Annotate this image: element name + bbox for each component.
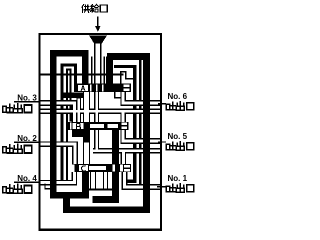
H-top step corner at piston1 right bbox=[121, 72, 135, 84]
label 吐出口 No.1 row bbox=[166, 184, 193, 192]
cross line H-top bbox=[39, 74, 124, 76]
connector piston3 down center E3 (outline) bbox=[103, 172, 108, 190]
channel H-mid core bbox=[38, 110, 160, 113]
channel No.2 core bbox=[38, 144, 75, 164]
svg-text:No. 6: No. 6 bbox=[168, 92, 188, 101]
label 供給口 (supply port) bbox=[82, 4, 107, 12]
discharge channel No.1 (outline) bbox=[125, 172, 161, 188]
thick staircase under piston2 left bbox=[75, 130, 86, 142]
thick top right bar bbox=[107, 53, 150, 60]
thick channel left loop bbox=[53, 53, 89, 195]
thick connector to piston1 top right bbox=[106, 56, 113, 83]
thick bottom bar C bbox=[63, 206, 147, 213]
bore outline left of supply gallery bbox=[91, 57, 93, 84]
thick connector piston2 right down and bottom bar B bbox=[93, 128, 116, 200]
channel No.1 core bbox=[125, 172, 161, 187]
svg-text:No. 5: No. 5 bbox=[168, 132, 188, 141]
leader tick No.1 bbox=[157, 186, 166, 188]
supply channel bore core bbox=[95, 43, 100, 84]
thick right vertical bbox=[143, 56, 150, 213]
small corner near No.4 channel bbox=[45, 184, 50, 189]
nested channel rectangle (thin, left) TC1 bbox=[67, 70, 71, 185]
connector E1 core bbox=[95, 92, 98, 122]
thick band under piston1 left bbox=[62, 93, 85, 99]
outer housing border bbox=[39, 34, 161, 230]
discharge channel No.2 (outline) bbox=[39, 144, 76, 164]
connector E2 core bbox=[95, 130, 98, 150]
connector piston2 to piston3 left D2 (outline) bbox=[83, 140, 90, 165]
progressive distributor valve schematic bbox=[0, 0, 200, 239]
supply arrow bbox=[97, 17, 99, 27]
connector H-mid2 to piston3 top (outline) bbox=[121, 151, 127, 165]
channel No.4 core bbox=[38, 172, 74, 183]
glyph 供 bbox=[82, 5, 90, 13]
cross channel H-mid2 (outline) bbox=[93, 148, 161, 153]
connector piston3 down D3 (outline) bbox=[90, 172, 96, 190]
piston assembly 2 bbox=[68, 122, 129, 130]
white bores of outlined channels bbox=[38, 43, 160, 189]
channel H-mid2 core bbox=[93, 150, 160, 153]
vertical channel line (thin, right) TC3 bbox=[139, 60, 141, 189]
connector F1 core bbox=[78, 99, 80, 122]
thick supply gallery network bbox=[53, 53, 150, 213]
connector H-mid to piston2 top (outline) bbox=[120, 111, 126, 122]
channel No.3 core bbox=[38, 103, 75, 122]
leader tick No.5 bbox=[158, 141, 166, 143]
bore outline right of supply gallery bbox=[103, 57, 105, 84]
piston assembly 3 bbox=[74, 164, 131, 172]
connector H-mid2 to piston3 core bbox=[122, 151, 125, 164]
connector band to piston2 box F1 (outline) bbox=[77, 96, 82, 123]
leader tick No.6 bbox=[158, 103, 166, 105]
thick connector bars A-C left bbox=[63, 194, 70, 210]
connector piston2 down center E2 (outline) bbox=[94, 130, 99, 150]
leader line No.4 bbox=[14, 181, 40, 183]
channel No.5 core bbox=[123, 130, 160, 141]
small step under piston1 right bbox=[115, 92, 122, 98]
nested channel rectangle (medium, right) MC2 bbox=[114, 67, 135, 182]
svg-text:No. 4: No. 4 bbox=[17, 174, 37, 183]
label 吐出口 No.5 row bbox=[166, 142, 193, 150]
line H-bottom bbox=[89, 188, 112, 190]
channel No.6 core bbox=[123, 92, 160, 103]
discharge channel No.5 (outline) bbox=[123, 130, 160, 142]
connector D1 core bbox=[84, 92, 89, 122]
leader line No.2 bbox=[14, 141, 40, 143]
discharge channel No.3 (outline) bbox=[39, 103, 75, 123]
svg-text:No. 3: No. 3 bbox=[17, 94, 37, 103]
cross channel H-mid (outline) bbox=[39, 109, 161, 114]
glyph 給 bbox=[91, 4, 99, 12]
label 吐出口 No.6 row bbox=[166, 102, 193, 110]
connector piston1 to piston2 left D1 (outline) bbox=[83, 92, 90, 123]
discharge channel No.6 (outline) bbox=[123, 92, 160, 104]
label 吐出口 No.2 row bbox=[3, 144, 32, 153]
supply channel bore (outline) bbox=[94, 43, 102, 84]
connector piston1 to piston2 center E1 (outline) bbox=[94, 92, 99, 123]
connector D3 core bbox=[91, 172, 95, 189]
connector D2 core bbox=[84, 143, 89, 164]
label 吐出口 No.3 row bbox=[3, 104, 32, 113]
connector E3 core bbox=[104, 172, 107, 189]
svg-text:No. 2: No. 2 bbox=[17, 134, 37, 143]
label 吐出口 No.4 row bbox=[3, 184, 32, 193]
glyph 口 bbox=[100, 5, 107, 12]
nested channel rectangle (medium, left) MC1 bbox=[62, 65, 76, 181]
leader line No.3 bbox=[14, 101, 40, 103]
svg-text:No. 1: No. 1 bbox=[168, 174, 188, 183]
discharge channel No.4 (outline) bbox=[39, 172, 75, 182]
connector H-mid to piston2 core bbox=[122, 111, 125, 121]
piston assembly 1 bbox=[74, 84, 131, 93]
thick connector under piston3 left bbox=[82, 172, 89, 195]
supply inlet funnel bbox=[89, 35, 107, 43]
